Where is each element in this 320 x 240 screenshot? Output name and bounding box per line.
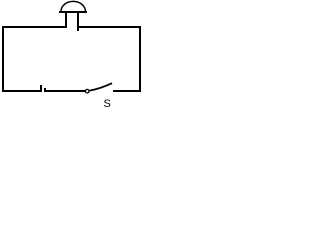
electric bell (dome)	[59, 1, 87, 31]
wire top-right segment	[78, 26, 141, 28]
switch S	[85, 83, 112, 93]
wire battery to switch segment	[46, 90, 85, 92]
battery cell	[40, 85, 46, 92]
wire bottom-left segment to battery	[2, 90, 42, 92]
wire bottom-right segment after switch	[113, 90, 141, 92]
svg-text:S: S	[104, 98, 111, 108]
wire top-left segment	[2, 26, 67, 28]
wire right side	[139, 26, 141, 92]
wire left side	[2, 26, 4, 92]
